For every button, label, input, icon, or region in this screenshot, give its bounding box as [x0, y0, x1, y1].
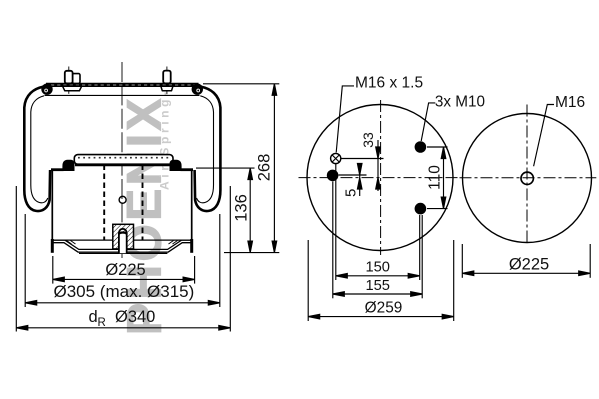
dim 110 ref lines	[427, 146, 448, 148]
ext line bottom ref	[224, 252, 279, 254]
air fitting symbol M16x1.5	[331, 153, 341, 163]
dim 33 line	[377, 140, 379, 191]
svg-text:Ø340: Ø340	[115, 308, 155, 326]
center hole M16	[521, 172, 533, 184]
dish rib ticks right	[169, 241, 178, 245]
dim line 305	[25, 302, 220, 304]
piston top plate	[74, 155, 173, 165]
stud hole right bottom	[415, 203, 427, 215]
dim line 150	[336, 275, 420, 277]
dim 110 line	[443, 147, 445, 209]
flange right	[161, 86, 173, 91]
svg-text:M16 x 1.5: M16 x 1.5	[355, 75, 423, 92]
flange left	[63, 86, 82, 91]
dish rib ticks left	[67, 241, 76, 245]
svg-text:136: 136	[232, 194, 250, 222]
ext lines 225 right view	[461, 244, 463, 278]
leader M16	[534, 105, 554, 167]
leader 3x M10	[421, 103, 435, 141]
stud right	[163, 71, 171, 84]
dim 5 ref line	[339, 174, 367, 176]
svg-text:150: 150	[365, 260, 390, 276]
skirt hem right	[190, 239, 193, 253]
dim line 155	[333, 293, 422, 295]
svg-text:268: 268	[256, 154, 274, 182]
bellows outer wall left	[24, 87, 50, 211]
piston shoulder right	[181, 168, 194, 171]
svg-text:Ø305 (max. Ø315): Ø305 (max. Ø315)	[54, 282, 195, 301]
dish lower profile	[52, 243, 191, 252]
dim 225 ext lines	[52, 256, 54, 284]
svg-text:Air Spring-: Air Spring-	[158, 88, 172, 190]
dim line 268	[273, 84, 275, 253]
svg-text:33: 33	[360, 132, 376, 148]
stud M16 left centerline	[68, 67, 70, 94]
svg-text:110: 110	[427, 165, 444, 190]
dim 340 ext lines	[15, 186, 17, 332]
piston bead bump left	[62, 160, 74, 171]
piston plate dotted pad	[78, 157, 170, 159]
stud hole left	[327, 170, 339, 182]
svg-text:R: R	[98, 317, 106, 329]
bead right	[192, 84, 203, 95]
bead left	[41, 84, 52, 95]
piston bottom rim line	[52, 239, 191, 241]
horizontal centerline	[460, 177, 597, 179]
svg-text:3x M10: 3x M10	[435, 94, 485, 111]
bellows inner wall left	[31, 96, 48, 203]
bead plate (top)	[46, 83, 199, 86]
ext lines 150	[335, 164, 337, 280]
outer circle	[307, 105, 453, 251]
texts right view	[509, 94, 585, 273]
dim 33 ref line	[341, 158, 384, 160]
piston shoulder left	[51, 168, 64, 171]
stud left front	[65, 71, 73, 84]
horizontal centerline	[299, 177, 458, 179]
stud hole right top	[415, 141, 427, 153]
bellows inner wall right	[197, 96, 214, 203]
svg-text:Ø225: Ø225	[105, 261, 145, 279]
dim line 225	[53, 278, 195, 280]
leader M16x1.5	[336, 86, 354, 153]
ext lines 155	[332, 182, 334, 299]
dim 5 line	[359, 163, 361, 196]
piston wall right	[191, 170, 193, 242]
piston hidden line left	[103, 165, 105, 241]
side view centerline	[121, 62, 123, 258]
svg-text:155: 155	[365, 278, 390, 294]
dim 305 ext lines	[24, 214, 26, 307]
dim line 259	[308, 316, 454, 318]
dim line 340	[16, 327, 230, 329]
ext line 136 top	[196, 167, 255, 169]
vent hole	[119, 196, 126, 203]
central bolt	[119, 232, 127, 254]
vertical centerline	[380, 100, 382, 255]
dim line 136	[249, 168, 251, 253]
svg-text:Ø225: Ø225	[509, 255, 549, 273]
piston wall left	[51, 170, 53, 242]
ext line top (268)	[203, 83, 279, 85]
svg-text:Ø259: Ø259	[365, 299, 403, 316]
svg-text:d: d	[89, 308, 98, 326]
bellows outer wall right	[195, 87, 221, 211]
piston bead bump right	[170, 160, 182, 171]
dish bottom edge	[79, 252, 167, 254]
piston hidden line right	[142, 165, 144, 241]
stud left rear	[72, 74, 80, 84]
skirt hem left	[51, 239, 54, 253]
svg-text:5: 5	[342, 189, 359, 197]
dish upper profile	[52, 240, 191, 249]
bellows inner top line	[45, 94, 200, 96]
dim line 225 right view	[462, 272, 590, 274]
svg-text:M16: M16	[555, 94, 585, 111]
central boss hatched	[113, 224, 134, 249]
dim texts left view	[54, 154, 274, 329]
stud M16 right centerline	[166, 67, 168, 95]
vertical centerline	[526, 105, 528, 245]
texts middle view	[342, 75, 485, 317]
dimension group left view	[16, 84, 279, 332]
ext lines 259	[307, 240, 309, 321]
outer circle	[463, 114, 592, 243]
